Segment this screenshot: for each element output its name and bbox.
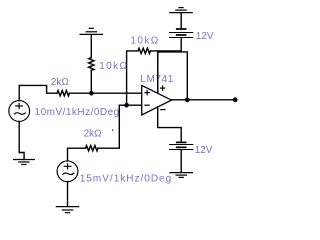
svg-text:12V: 12V [195,145,213,156]
svg-text:15mV/1kHz/0Deg: 15mV/1kHz/0Deg [80,173,172,184]
svg-text:10kΩ: 10kΩ [130,35,159,46]
svg-text:2kΩ: 2kΩ [51,77,70,88]
svg-text:2kΩ: 2kΩ [84,128,103,139]
svg-text:10mV/1kHz/0Deg: 10mV/1kHz/0Deg [35,107,120,118]
svg-text:12V: 12V [196,31,214,42]
svg-text:10kΩ: 10kΩ [99,61,128,72]
